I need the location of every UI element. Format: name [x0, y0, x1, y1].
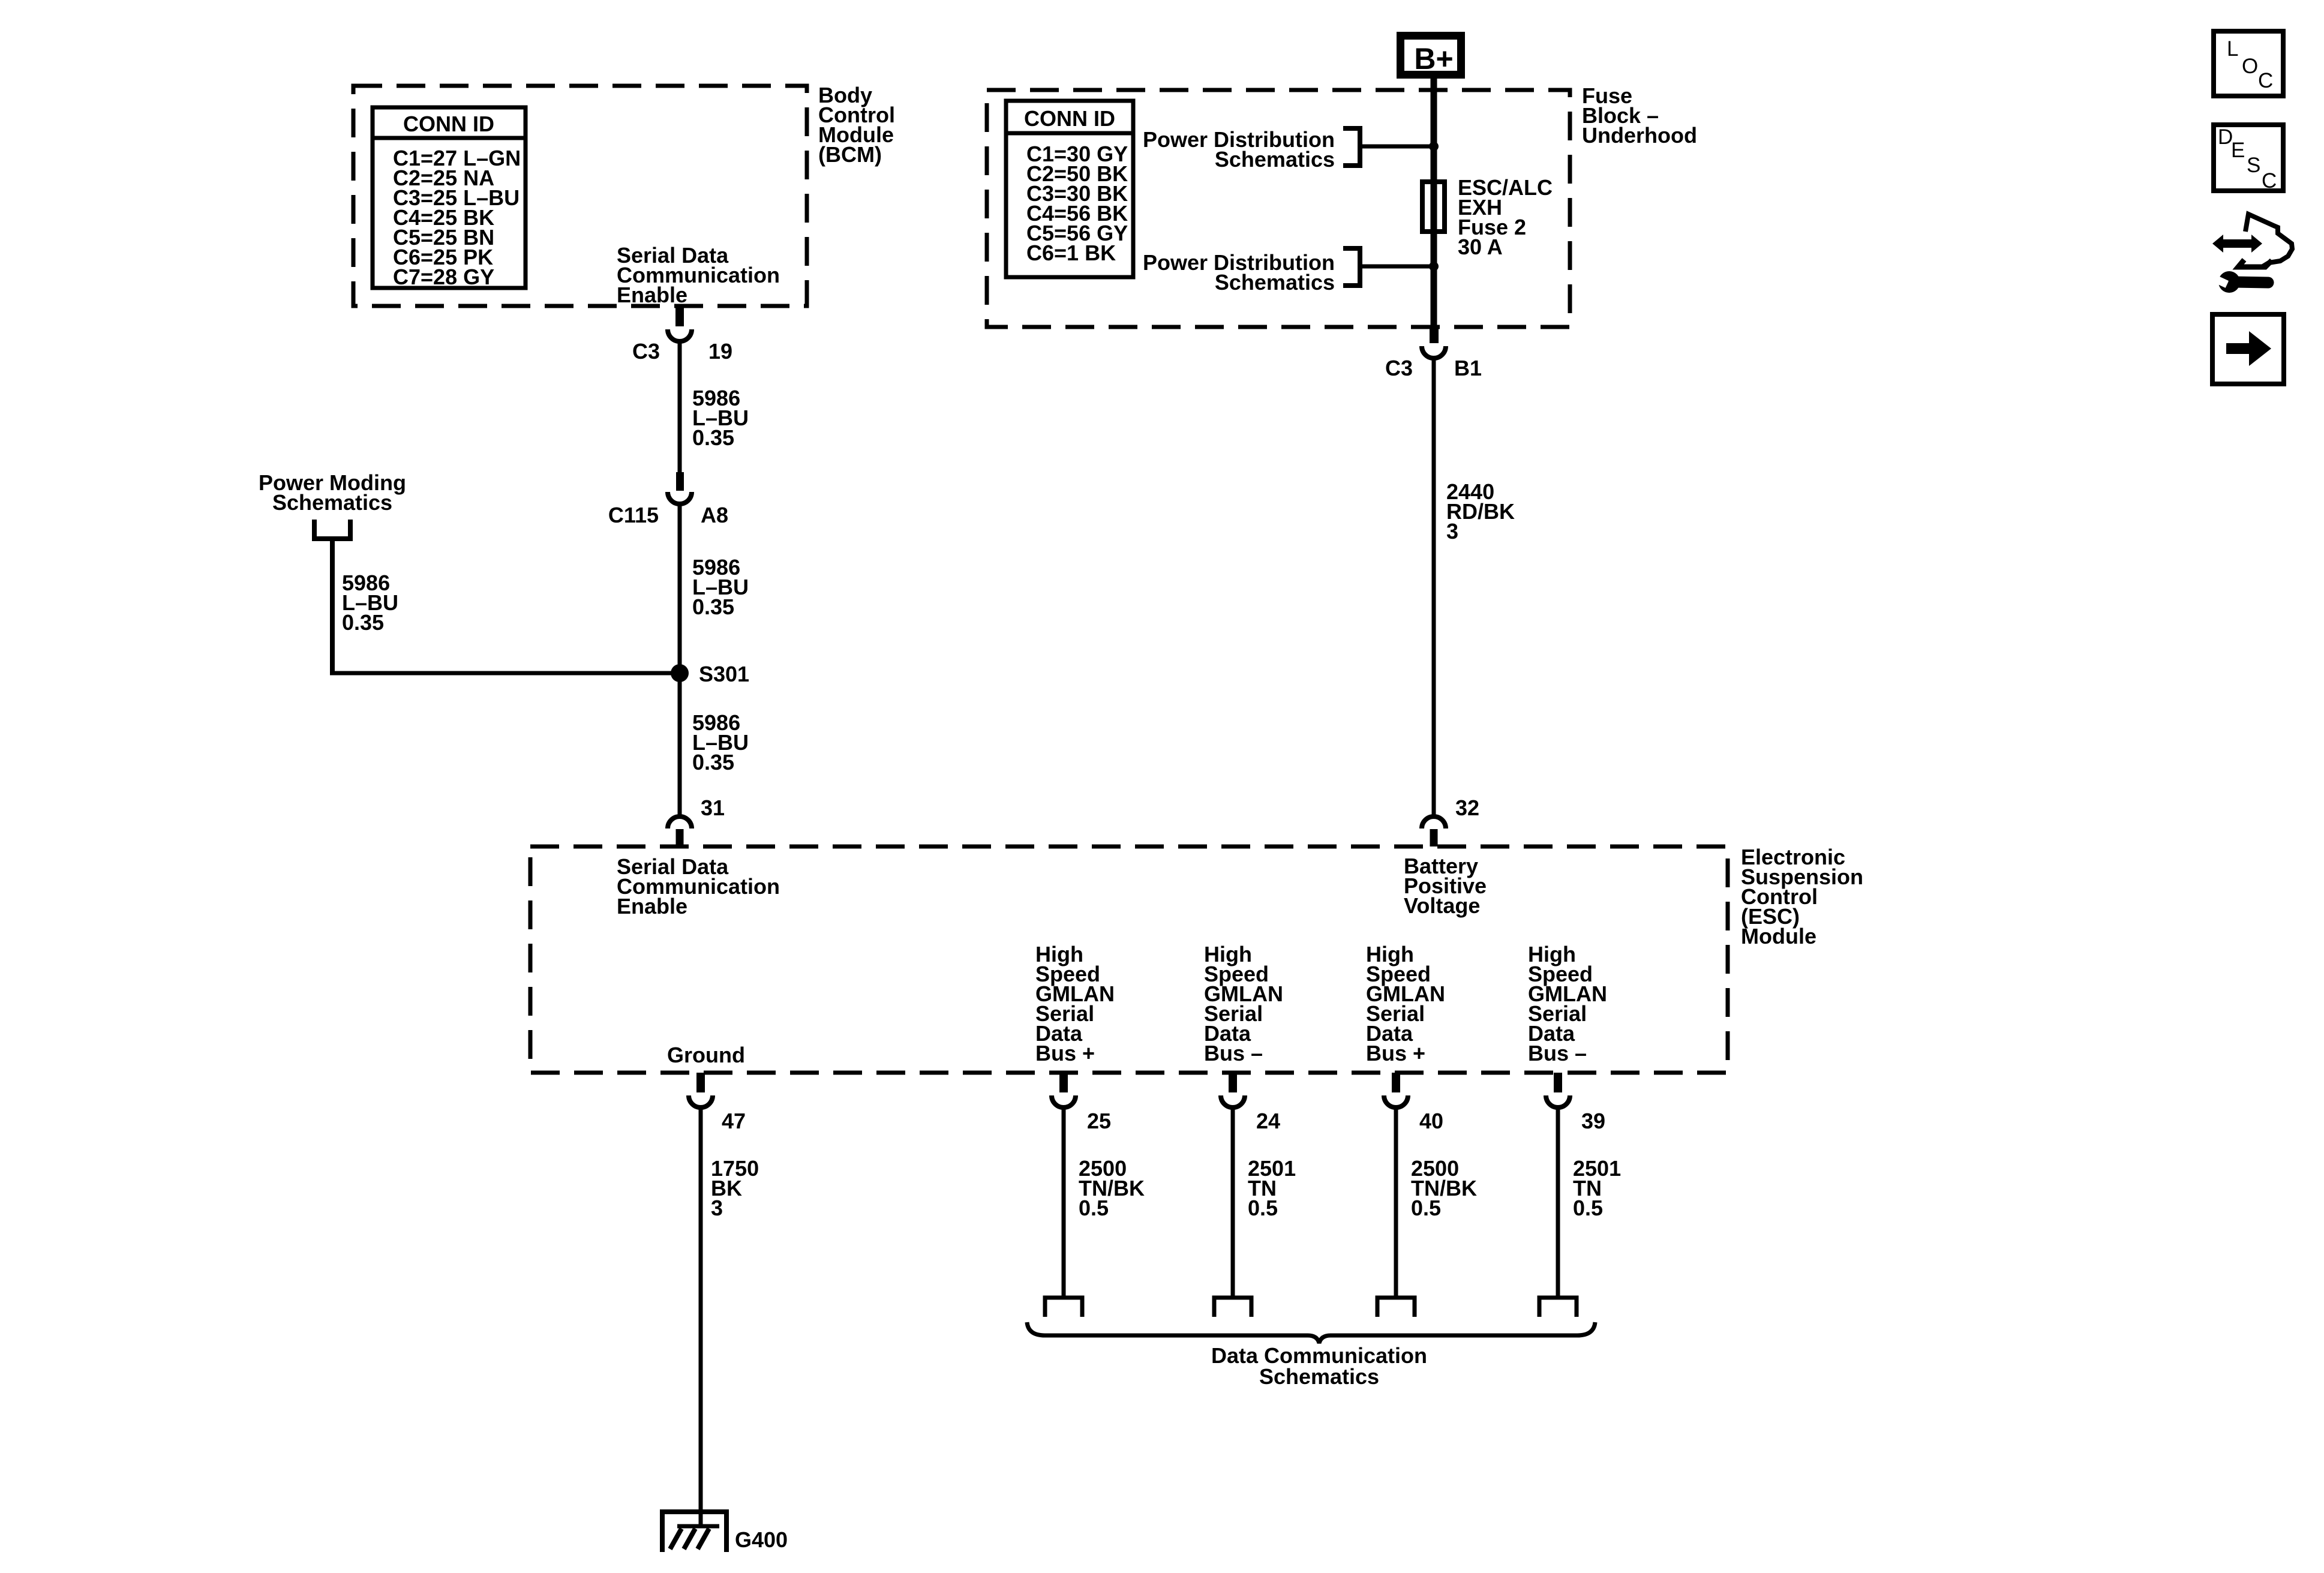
Fuse Block dashed box: [987, 90, 1570, 327]
wire 1750 BK (ground): [699, 1106, 703, 1512]
svg-text:Enable: Enable: [617, 283, 687, 307]
connector pin 39: [1546, 1073, 1605, 1133]
B+ terminal: [1401, 36, 1461, 76]
svg-text:CONN ID: CONN ID: [403, 112, 494, 136]
connector pin 47 (ESC out, ground): [689, 1073, 746, 1133]
wire 5986 L-BU (BCM to C115): [678, 340, 682, 473]
wire 5986 L-BU (C115 to S301): [678, 503, 682, 673]
value label 2500 TN/BK 0.5: [1079, 1156, 1145, 1220]
ESC module label: [1741, 845, 1863, 948]
termination pin 24: [1214, 1298, 1251, 1317]
wire 2501 TN col2: [1231, 1106, 1235, 1296]
svg-text:30 A: 30 A: [1458, 235, 1503, 259]
svg-text:0.5: 0.5: [1079, 1196, 1109, 1220]
svg-text:L: L: [2227, 37, 2238, 61]
svg-text:Enable: Enable: [617, 894, 687, 918]
svg-text:O: O: [2242, 55, 2258, 78]
High Speed GMLAN labels col2: [1204, 942, 1283, 1065]
Serial Data Communication Enable (BCM pin label): [617, 243, 780, 307]
wire 2440 RD/BK (fuse to ESC pin 32): [1432, 356, 1436, 815]
svg-text:0.5: 0.5: [1573, 1196, 1603, 1220]
svg-text:19: 19: [708, 339, 732, 364]
termination pin 40: [1377, 1298, 1415, 1317]
CONN ID table (Fuse Block): [1006, 101, 1133, 277]
wire 2500 TN/BK col3: [1394, 1106, 1398, 1296]
svg-text:S: S: [2247, 154, 2260, 177]
High Speed GMLAN labels col3: [1366, 942, 1445, 1065]
connector pin 32 (ESC in): [1422, 795, 1479, 846]
icon dog/wrench (diagnostic): [2211, 214, 2292, 293]
value label 1750 BK 3: [711, 1156, 759, 1220]
ground G400: [660, 1509, 788, 1552]
svg-text:0.35: 0.35: [342, 610, 384, 635]
svg-text:Schematics: Schematics: [1215, 270, 1335, 295]
svg-text:0.5: 0.5: [1248, 1196, 1278, 1220]
svg-text:31: 31: [701, 795, 725, 820]
connector C3 pin 19 (BCM out): [632, 306, 732, 364]
svg-text:3: 3: [711, 1196, 723, 1220]
svg-text:Bus –: Bus –: [1204, 1041, 1263, 1065]
svg-text:Schematics: Schematics: [1259, 1364, 1379, 1389]
value label 2501 TN 0.5: [1573, 1156, 1621, 1220]
wire B+ feed: [1431, 74, 1437, 327]
svg-text:C: C: [2258, 69, 2273, 92]
svg-text:0.5: 0.5: [1411, 1196, 1441, 1220]
svg-text:A8: A8: [701, 503, 728, 527]
svg-text:B+: B+: [1414, 42, 1453, 76]
Power Distribution Schematics (lower): [1143, 250, 1335, 295]
value label 2440 RD/BK 3: [1446, 479, 1515, 544]
value label 2500 TN/BK 0.5: [1411, 1156, 1477, 1220]
Power Distribution Schematics (upper): [1143, 127, 1335, 172]
svg-text:Schematics: Schematics: [1215, 147, 1335, 172]
brace Data Communication Schematics: [1027, 1322, 1595, 1343]
value label 5986 L-BU 0.35: [692, 710, 749, 775]
value label 5986 L-BU 0.35: [342, 571, 398, 635]
svg-text:40: 40: [1419, 1109, 1443, 1133]
Battery Positive Voltage: [1404, 854, 1487, 918]
svg-text:32: 32: [1455, 795, 1479, 820]
CONN ID table (BCM): [373, 107, 526, 289]
svg-text:Ground: Ground: [667, 1043, 745, 1067]
connector C3 pin B1 (fuse block out): [1385, 327, 1482, 380]
Body Control Module dashed box: [353, 86, 807, 306]
svg-text:0.35: 0.35: [692, 750, 734, 775]
svg-text:Bus –: Bus –: [1528, 1041, 1587, 1065]
svg-text:G400: G400: [735, 1527, 788, 1552]
svg-text:C3: C3: [1385, 356, 1413, 380]
value label 5986 L-BU 0.35: [692, 555, 749, 619]
svg-text:C3: C3: [632, 339, 660, 364]
icon DESC: [2214, 125, 2283, 193]
wire 2500 TN/BK col1: [1062, 1106, 1066, 1296]
svg-text:E: E: [2231, 139, 2245, 162]
off-page bracket upper: [1343, 128, 1360, 166]
wire 5986 L-BU (Power Moding branch): [330, 539, 335, 673]
svg-text:C115: C115: [608, 503, 659, 527]
connector pin 24: [1221, 1073, 1280, 1133]
BCM module label: [818, 83, 895, 167]
Power Moding Schematics reference: [259, 470, 406, 515]
svg-text:Bus +: Bus +: [1366, 1041, 1425, 1065]
Fuse Block label: [1582, 83, 1697, 148]
connector pin 25: [1052, 1073, 1111, 1133]
High Speed GMLAN labels col4: [1528, 942, 1607, 1065]
wire bracket to junction: [1360, 145, 1434, 149]
svg-text:CONN ID: CONN ID: [1024, 106, 1115, 131]
svg-text:47: 47: [722, 1109, 746, 1133]
termination pin 25: [1045, 1298, 1082, 1317]
Serial Data Communication Enable (ESC pin label): [617, 854, 780, 918]
junction node upper: [1429, 142, 1439, 151]
svg-text:39: 39: [1581, 1109, 1605, 1133]
svg-text:25: 25: [1087, 1109, 1111, 1133]
ESC dashed box: [530, 846, 1728, 1073]
svg-text:Underhood: Underhood: [1582, 123, 1697, 148]
icon forward arrow: [2212, 314, 2284, 384]
off-page bracket lower: [1343, 248, 1360, 286]
High Speed GMLAN labels col1: [1035, 942, 1115, 1065]
svg-text:Schematics: Schematics: [272, 490, 392, 515]
junction node lower: [1429, 262, 1439, 271]
svg-text:Bus +: Bus +: [1035, 1041, 1095, 1065]
svg-text:Module: Module: [1741, 924, 1816, 948]
splice S301: [671, 664, 689, 682]
icon LOC: [2214, 31, 2283, 96]
svg-text:Voltage: Voltage: [1404, 893, 1480, 918]
svg-text:C7=28 GY: C7=28 GY: [393, 265, 494, 289]
wire 5986 L-BU (S301 to ESC pin 31): [678, 673, 682, 815]
wire bracket to junction: [1360, 265, 1434, 269]
off-page bracket (Power Moding): [314, 520, 350, 539]
svg-text:24: 24: [1256, 1109, 1280, 1133]
connector pin 31 (ESC in): [668, 795, 725, 846]
svg-text:0.35: 0.35: [692, 425, 734, 450]
svg-text:C6=1 BK: C6=1 BK: [1026, 241, 1116, 265]
svg-text:C: C: [2262, 169, 2277, 193]
termination pin 39: [1539, 1298, 1577, 1317]
svg-text:3: 3: [1446, 519, 1458, 544]
connector pin 40: [1384, 1073, 1443, 1133]
svg-text:S301: S301: [699, 662, 749, 686]
svg-text:B1: B1: [1454, 356, 1482, 380]
svg-text:0.35: 0.35: [692, 595, 734, 619]
value label 5986 L-BU 0.35: [692, 386, 749, 450]
connector C115 pin A8: [608, 472, 728, 527]
wire 2501 TN col4: [1556, 1106, 1560, 1296]
fuse ESC/ALC EXH Fuse 2 30 A: [1422, 182, 1445, 232]
svg-text:(BCM): (BCM): [818, 142, 882, 167]
value label 2501 TN 0.5: [1248, 1156, 1296, 1220]
